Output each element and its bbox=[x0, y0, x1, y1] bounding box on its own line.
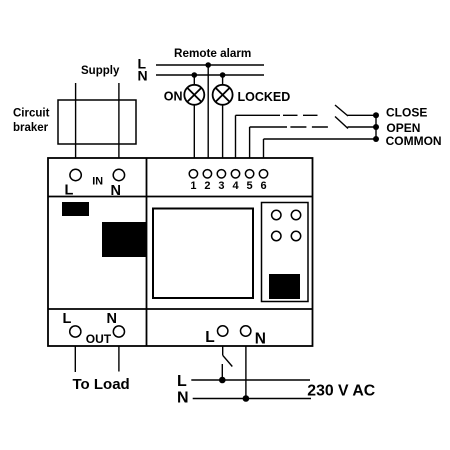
svg-text:L: L bbox=[65, 183, 74, 199]
svg-text:IN: IN bbox=[92, 176, 103, 188]
svg-text:3: 3 bbox=[218, 180, 224, 192]
svg-text:230 V AC: 230 V AC bbox=[307, 382, 375, 399]
svg-text:L: L bbox=[205, 329, 214, 346]
svg-text:4: 4 bbox=[232, 180, 239, 192]
svg-text:L: L bbox=[177, 373, 187, 390]
svg-text:Remote alarm: Remote alarm bbox=[174, 47, 251, 60]
svg-text:N: N bbox=[177, 390, 189, 407]
svg-text:braker: braker bbox=[13, 122, 49, 134]
svg-text:5: 5 bbox=[247, 180, 253, 192]
svg-text:6: 6 bbox=[260, 180, 266, 192]
svg-text:N: N bbox=[255, 330, 266, 347]
svg-text:COMMON: COMMON bbox=[386, 134, 442, 148]
svg-text:Circuit: Circuit bbox=[13, 107, 50, 119]
svg-text:ON: ON bbox=[164, 90, 183, 104]
svg-text:N: N bbox=[138, 68, 148, 84]
svg-text:1: 1 bbox=[190, 180, 196, 192]
svg-text:N: N bbox=[107, 311, 117, 327]
svg-text:LOCKED: LOCKED bbox=[238, 90, 291, 104]
svg-text:L: L bbox=[63, 311, 72, 327]
svg-text:CLOSE: CLOSE bbox=[386, 106, 427, 120]
svg-text:N: N bbox=[111, 183, 121, 199]
svg-text:OPEN: OPEN bbox=[386, 121, 420, 135]
svg-text:Supply: Supply bbox=[81, 65, 120, 77]
svg-text:2: 2 bbox=[204, 180, 210, 192]
svg-text:To Load: To Load bbox=[73, 376, 130, 393]
svg-text:OUT: OUT bbox=[86, 332, 112, 346]
